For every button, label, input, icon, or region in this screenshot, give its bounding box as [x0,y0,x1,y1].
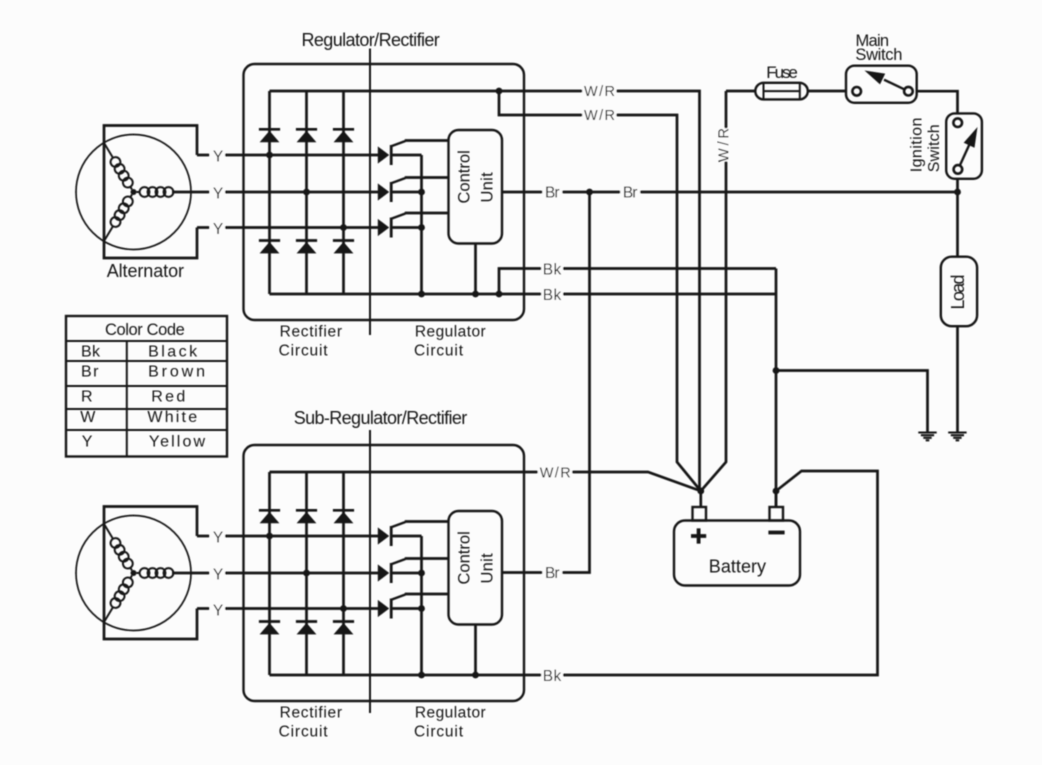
svg-text:Rectifier: Rectifier [280,705,342,722]
wire phase Y2 top [172,191,378,194]
wire load to ground [956,326,959,432]
junction Bk ground tap [773,367,780,374]
wire U2 negative bottom bus [270,674,525,677]
wire gate 4 to control unit [405,520,449,523]
diode D9 [333,510,354,523]
wire W/R no.2 from U1 [499,91,701,491]
svg-text:W/R: W/R [540,465,571,481]
svg-text:Sub-Regulator/Rectifier: Sub-Regulator/Rectifier [294,408,468,428]
diode D4 [259,241,280,254]
label Br no.1 [542,184,562,200]
svg-text:Y: Y [213,603,223,620]
label W/R sub [538,464,573,481]
wire Br drop to sub-regulator [502,192,590,573]
wire U1 negative bottom bus [270,293,777,296]
diode D12 [333,622,354,635]
svg-text:W/R: W/R [584,84,615,100]
node Y1 label top [210,147,226,163]
svg-text:Circuit: Circuit [414,723,464,740]
svg-text:Bk: Bk [543,262,562,279]
svg-text:Y: Y [213,567,223,584]
control unit U2 [449,511,503,625]
alternator (sub) star point node [131,570,137,576]
thyristor SCR3 [378,214,422,238]
diode D7 [259,510,280,523]
svg-text:Regulator: Regulator [415,324,486,341]
wire phase Y1 sub [197,535,378,538]
svg-text:Color Code: Color Code [105,321,185,339]
label Br no.2 [620,184,640,200]
svg-text:Switch: Switch [855,46,902,64]
wire phase Y3 top [197,226,378,229]
svg-text:White: White [147,409,197,426]
wire SCR cathode bus U1 [420,155,423,294]
junction control unit-bottom bus U2 [472,672,479,679]
svg-text:W/R: W/R [717,128,733,162]
wire U1 positive top bus [270,90,500,93]
label Bk no.1 [541,260,563,277]
U2 internal divider line [369,430,371,713]
junction Br tap [586,189,593,196]
svg-text:Switch: Switch [926,124,943,172]
junction control unit-bottom bus U1 [472,291,479,298]
wire U1 diode column 2 [305,91,308,294]
alternator (top) phase coil right [137,187,191,197]
wire gate 6 to control unit [405,593,449,596]
svg-text:Y: Y [213,149,223,166]
control unit U1 [449,130,503,244]
svg-text:Unit: Unit [479,172,497,203]
svg-text:Bk: Bk [543,287,562,304]
sub-regulator/rectifier enclosure U2 [244,445,525,701]
alternator (sub) phase coil lower-left [100,573,136,625]
junction top bus W/R tap [496,88,503,95]
wire U1 diode column 1 [268,91,271,294]
svg-text:Circuit: Circuit [279,342,329,359]
load L1 [941,257,977,327]
wire W/R no.1 from U1 top bus [499,91,700,491]
fuse F1 [755,83,808,100]
wire U2 diode column 2 [305,472,308,675]
alternator (top) phase coil lower-left [100,192,136,244]
wire fuse to main switch [808,90,846,93]
color code table [66,316,227,457]
junction SCR bus to bottom bus [418,291,425,298]
label Br sub [542,565,562,581]
thyristor SCR6 [378,595,422,619]
wire phase Y2 sub [172,572,378,575]
wire W/R battery feed vertical [701,91,756,491]
svg-text:Alternator: Alternator [107,261,184,281]
diode D3 [333,129,354,142]
diode D2 [296,129,317,142]
ignition switch S2 [946,113,982,178]
svg-text:Br: Br [545,185,560,202]
svg-text:Control: Control [456,531,474,584]
svg-text:W/R: W/R [584,108,615,124]
wire U2 positive top bus (W/R out) [270,471,525,474]
svg-text:Y: Y [213,186,223,203]
alternator (top) frame [104,126,197,259]
svg-text:Y: Y [82,434,93,451]
svg-text:Bk: Bk [81,344,101,361]
wire main switch to ignition switch [917,91,958,113]
svg-text:Fuse: Fuse [766,63,798,82]
label W/R no.1 [582,82,616,99]
junction node Y2-column2 sub [303,570,310,577]
wire gate 1 to control unit [405,139,449,142]
regulator/rectifier enclosure U1 [244,64,525,320]
junction Bk stub-bottom bus [496,291,503,298]
U1 internal divider line [369,49,371,336]
label W/R no.2 [582,106,616,123]
svg-text:Yellow: Yellow [149,434,206,451]
wire battery minus loop to sub-regulator Bk [524,471,878,675]
junction node Y2-column2 [303,189,310,196]
junction SCR6 output [418,605,425,612]
diode D6 [333,241,354,254]
diode D8 [296,510,317,523]
svg-text:Circuit: Circuit [279,723,329,740]
svg-text:Black: Black [148,344,198,361]
alternator (sub) stator circle [76,516,191,631]
svg-text:Rectifier: Rectifier [280,324,342,341]
node Y3 label sub [210,601,226,617]
wire SCR cathode bus U2 [420,536,423,675]
junction battery minus node [773,488,780,495]
svg-text:Battery: Battery [709,557,766,577]
wire Bk no.1 from U1 [499,269,776,295]
junction node Y1-column1 sub [266,533,273,540]
wire U1 diode column 3 [342,91,345,294]
wire phase Y1 top [197,154,378,157]
svg-text:Regulator/Rectifier: Regulator/Rectifier [302,30,440,50]
wire gate 2 to control unit [405,176,449,179]
alternator (top) phase coil upper-left [100,140,136,192]
svg-text:Br: Br [545,565,560,582]
svg-text:Y: Y [213,530,223,547]
node Y3 label top [210,220,226,236]
battery BT1 [693,507,707,521]
svg-text:Red: Red [151,389,185,406]
wire U2 diode column 3 [342,472,345,675]
thyristor SCR2 [378,178,422,202]
alternator (top) star point node [131,189,137,195]
svg-text:Regulator: Regulator [415,705,486,722]
wire U2 diode column 1 [268,472,271,675]
svg-text:Load: Load [948,275,968,310]
junction SCR2 output [418,189,425,196]
junction node Y1-column1 [266,152,273,159]
svg-text:Unit: Unit [479,553,497,584]
svg-text:Circuit: Circuit [414,342,464,359]
svg-text:Bk: Bk [543,668,562,685]
diode D5 [296,241,317,254]
main switch S1 [846,66,917,103]
alternator (sub) phase coil upper-left [100,521,136,573]
wire Bk no.1 down to battery minus [775,269,778,508]
ground G2 [948,433,966,441]
alternator (top) stator circle [76,135,191,250]
junction Br-ignition [954,189,961,196]
node Y2 label sub [210,565,226,581]
wire Bk tap to ground [776,371,928,433]
node Y1 label sub [210,528,226,544]
thyristor SCR1 [378,141,422,165]
junction SCR5 output [418,570,425,577]
ground G1 [918,433,936,441]
thyristor SCR4 [378,522,422,546]
wire phase Y3 sub [197,607,378,610]
wire Br main from control unit to ignition switch [502,191,958,194]
junction node Y3-column3 [340,224,347,231]
node Y2 label top [210,184,226,200]
diode D11 [296,622,317,635]
wire battery plus stub [699,491,702,507]
label Bk sub [541,667,563,684]
label Bk no.2 [541,286,563,303]
label W/R vertical [719,128,733,161]
wire control unit ground stub U2 [474,625,477,676]
svg-text:Br: Br [623,185,638,202]
svg-text:Ignition: Ignition [909,118,926,173]
diode D10 [259,622,280,635]
junction SCR bus to bottom bus sub [418,672,425,679]
wire control unit ground stub U1 [474,244,477,295]
svg-text:R: R [81,389,93,406]
svg-text:W: W [80,409,96,426]
junction SCR3 output [418,224,425,231]
junction battery plus node [697,488,704,495]
svg-text:Y: Y [213,221,223,238]
svg-text:Control: Control [456,150,474,203]
wire ignition switch to load [956,179,959,256]
alternator (sub) phase coil right [137,568,191,578]
wire W/R from sub-regulator to battery [524,472,701,491]
wire gate 5 to control unit [405,557,449,560]
wire battery minus stub [775,491,778,507]
junction node Y3-column3 sub [340,605,347,612]
svg-text:Br: Br [81,364,99,381]
wire gate 3 to control unit [405,212,449,215]
diode D1 [259,129,280,142]
thyristor SCR5 [378,559,422,583]
alternator (sub) frame [104,507,197,640]
svg-text:Brown: Brown [148,364,205,381]
